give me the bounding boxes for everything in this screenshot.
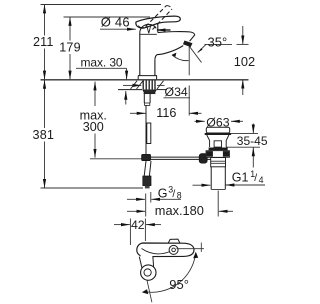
pull rod vertical (145, 105, 147, 155)
wire: extension line at rod level (90, 158, 148, 160)
spray vertical stream line (188, 46, 190, 75)
svg-text:95°: 95° (169, 277, 189, 292)
deck band bottom line (118, 89, 142, 91)
svg-text:/: / (172, 188, 175, 200)
drain tailpipe (210, 167, 212, 190)
dimension 35-45 (226, 132, 258, 134)
dimension D34 leader (123, 84, 134, 86)
svg-text:/: / (254, 172, 257, 184)
svg-text:35°: 35° (208, 34, 228, 49)
threaded shank (143, 80, 155, 89)
body base collar (138, 76, 157, 80)
faucet side view: body (140, 32, 155, 75)
cartridge dome under lever (140, 24, 157, 32)
deck hatching left (131, 81, 144, 89)
dimension D46 right arrow (157, 29, 171, 31)
lever ring outer (169, 245, 178, 254)
leader 35deg (198, 44, 206, 52)
svg-text:35-45: 35-45 (237, 134, 268, 148)
top view: lever handle (137, 243, 194, 257)
leader G 3/8 (127, 198, 145, 200)
wire: bottom reference line (381 level) (41, 187, 144, 189)
svg-text:179: 179 (59, 40, 81, 54)
angle arc 35deg (172, 55, 189, 61)
wire: extension line (179 level) (64, 16, 151, 18)
svg-text:300: 300 (83, 120, 104, 134)
lever ring inner (172, 248, 176, 252)
faucet side view: lever handle (136, 16, 180, 28)
mounting nut (143, 90, 156, 93)
wire: extension line 42 left (129, 219, 131, 246)
faucet side view: dashed raised lever (146, 6, 173, 30)
drain detail rect (214, 141, 221, 147)
spout axis line (147, 280, 152, 302)
lever centerline (177, 248, 205, 250)
spray slant line (190, 47, 202, 63)
dimension 42 (114, 224, 130, 226)
drain collar (211, 158, 226, 167)
dimension max.300 (94, 82, 96, 106)
horizontal pop-up rod (151, 156, 214, 158)
dimension D46 leader left arrow (100, 28, 136, 30)
svg-text:Ø 46: Ø 46 (101, 14, 130, 29)
body shoulder line (140, 33, 157, 35)
spout aerator inner circle (144, 269, 151, 276)
svg-text:max.180: max.180 (155, 203, 204, 218)
svg-text:4: 4 (259, 175, 264, 185)
dimension max.180 (127, 210, 145, 212)
wire: extension line hose right edge (150, 192, 152, 203)
aerator (183, 41, 192, 47)
hose upper section (147, 123, 151, 144)
spout end outer circle (141, 265, 156, 280)
drain taper (207, 135, 229, 147)
leader G1 1/4 (193, 184, 211, 186)
faucet side view: spout (155, 32, 195, 60)
lever tip hook (138, 26, 144, 28)
wire: extension line 42 right (144, 219, 146, 242)
spout neck opening cover (141, 255, 153, 258)
drain seal band (209, 148, 228, 151)
lever front pointer (146, 24, 151, 33)
svg-text:116: 116 (156, 106, 176, 120)
shank collar (145, 103, 150, 105)
svg-text:102: 102 (234, 54, 255, 69)
svg-text:42: 42 (131, 218, 145, 232)
svg-text:Ø34: Ø34 (165, 85, 188, 99)
top view: spout (139, 257, 153, 268)
svg-text:381: 381 (32, 128, 54, 142)
dimension max.30 leader (76, 67, 127, 69)
wire: extension line top (211 level) (41, 4, 162, 6)
wire: extension line drain center (217, 191, 219, 217)
dimension 102 (205, 43, 233, 45)
dimension max.30 lower arrow (125, 91, 127, 105)
svg-text:max. 30: max. 30 (81, 55, 123, 69)
drain nut (206, 151, 230, 158)
shank tube (143, 94, 145, 103)
dimension 381 (44, 80, 46, 188)
wire: deck surface line (41, 79, 249, 81)
wire: extension line hose center (145, 194, 147, 217)
drain flange rim (205, 133, 231, 135)
drain clamp knob (199, 154, 207, 164)
hose lower section (144, 161, 146, 176)
svg-text:G: G (158, 186, 168, 200)
neck right edge (157, 23, 159, 32)
dimension 179 (69, 17, 71, 79)
drain plug cap (206, 127, 229, 133)
rod connector block (142, 154, 151, 160)
deck hatching right (157, 81, 164, 89)
dimension 116 (130, 112, 146, 114)
hose G3/8 fitting (143, 176, 151, 186)
svg-text:G1: G1 (232, 170, 249, 184)
swivel arc 95deg (144, 255, 195, 292)
centerline tick (200, 243, 202, 253)
dimension D63 (195, 120, 205, 122)
svg-text:211: 211 (33, 35, 54, 49)
lever top bump (168, 239, 180, 243)
dimension 211 (44, 5, 46, 80)
lever inner line (142, 249, 171, 254)
